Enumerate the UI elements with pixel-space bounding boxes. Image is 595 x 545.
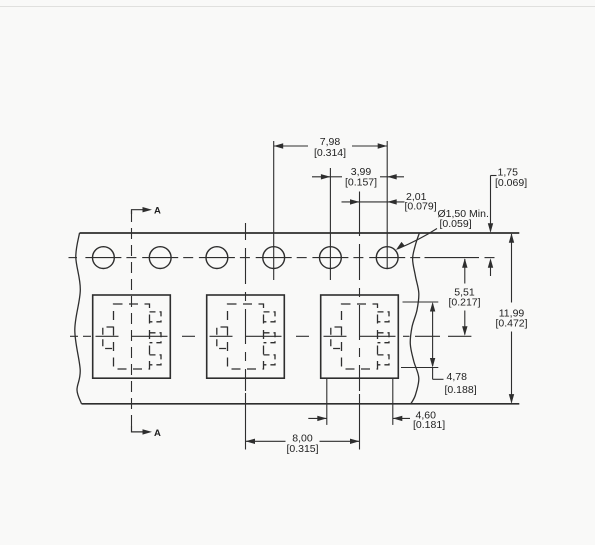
svg-text:[0.069]: [0.069] bbox=[495, 177, 527, 189]
svg-text:[0.079]: [0.079] bbox=[405, 201, 437, 213]
sprocket hole 3 bbox=[206, 247, 228, 269]
svg-text:[0.472]: [0.472] bbox=[495, 318, 527, 330]
dimension 2,01 [0.079] bbox=[360, 201, 388, 203]
pocket row centerline bbox=[70, 335, 78, 337]
sprocket hole 1 bbox=[93, 247, 115, 269]
section line A-A bbox=[131, 211, 133, 432]
pocket 3 centerline and extensions bbox=[359, 192, 361, 237]
pocket 3 outline bbox=[321, 295, 399, 378]
tape left break line bbox=[75, 233, 82, 404]
svg-text:[0.315]: [0.315] bbox=[286, 443, 318, 455]
page top hairline bbox=[0, 6, 595, 8]
svg-text:7,98: 7,98 bbox=[320, 136, 341, 148]
svg-text:A: A bbox=[154, 428, 161, 439]
dimension 11,99 [0.472] bbox=[511, 234, 513, 303]
hole diameter callout Ø1,50 Min. [0.059] bbox=[398, 229, 438, 250]
pocket 1 outline bbox=[93, 295, 171, 378]
svg-text:[0.217]: [0.217] bbox=[448, 296, 480, 308]
svg-text:[0.314]: [0.314] bbox=[314, 147, 346, 159]
sprocket hole 5 bbox=[320, 247, 342, 269]
sprocket hole centerline bbox=[69, 257, 78, 259]
tape top edge bbox=[80, 232, 520, 234]
component outline in pocket 3 bbox=[331, 304, 389, 369]
section arrow A bottom bbox=[132, 426, 144, 432]
svg-text:[0.157]: [0.157] bbox=[345, 177, 377, 189]
dimension 3,99 [0.157] bbox=[329, 168, 331, 280]
pocket 2 outline bbox=[207, 295, 285, 378]
section arrow A top bbox=[132, 210, 144, 214]
sprocket hole 6 bbox=[376, 247, 398, 269]
svg-text:[0.059]: [0.059] bbox=[440, 218, 472, 230]
pocket 2 centerline and 8,00 extension bbox=[245, 223, 247, 240]
svg-text:[0.181]: [0.181] bbox=[413, 419, 445, 431]
tape bottom edge bbox=[82, 403, 520, 405]
component outline in pocket 1 bbox=[103, 304, 161, 369]
dimension 4,78 [0.188] bbox=[403, 301, 439, 303]
svg-text:[0.188]: [0.188] bbox=[445, 384, 477, 396]
component outline in pocket 2 bbox=[217, 304, 275, 369]
svg-text:4,78: 4,78 bbox=[447, 371, 468, 383]
dimension 1,75 [0.069] bbox=[491, 175, 497, 177]
sprocket hole 2 bbox=[149, 247, 171, 269]
dimension 7,98 [0.314] bbox=[273, 141, 275, 280]
svg-text:A: A bbox=[154, 206, 161, 217]
dimension 4,60 [0.181] bbox=[326, 379, 328, 425]
sprocket hole 4 bbox=[263, 247, 285, 269]
dimension 5,51 [0.217] bbox=[464, 259, 466, 284]
dimension 8,00 [0.315] bbox=[246, 440, 286, 442]
tape right break line bbox=[410, 233, 419, 404]
